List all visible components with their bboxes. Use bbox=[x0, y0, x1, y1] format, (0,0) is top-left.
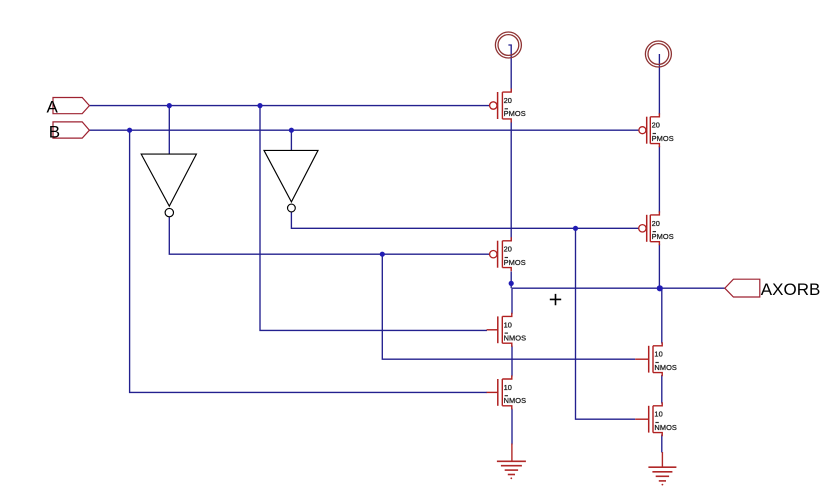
svg-text:PMOS: PMOS bbox=[504, 109, 526, 118]
cursor crosshair bbox=[550, 294, 561, 305]
wire PMOS M1 drain to PMOS M2 source bbox=[510, 122, 512, 242]
wire B to inverter U2 input bbox=[290, 130, 292, 150]
junction node BBAR bbox=[573, 226, 578, 231]
ground G2 bbox=[648, 452, 676, 486]
wire NMOS M6 source to ground G1 bbox=[511, 409, 513, 445]
junction node OUT1 bbox=[509, 281, 514, 286]
wire ABAR down to NMOS M7 gate bbox=[382, 254, 635, 359]
wire node OUT2 to NMOS M7 drain bbox=[661, 288, 663, 343]
junction node ABAR bbox=[380, 252, 385, 257]
PMOS M4 bbox=[639, 211, 674, 245]
output port AXORB bbox=[725, 279, 821, 299]
junction node on wire A at inverter U1 drop bbox=[167, 103, 172, 108]
svg-text:PMOS: PMOS bbox=[652, 232, 674, 241]
PMOS M3 bbox=[639, 113, 674, 147]
wire inverter U2 output to PMOS M4 gate bbox=[291, 212, 639, 228]
inverter U2 bbox=[264, 150, 318, 212]
input port B bbox=[49, 122, 90, 142]
NMOS M5 bbox=[487, 313, 527, 347]
wire PMOS M4 drain to node OUT2 bbox=[658, 244, 660, 288]
svg-text:10: 10 bbox=[654, 350, 662, 359]
svg-text:10: 10 bbox=[504, 383, 512, 392]
svg-text:PMOS: PMOS bbox=[504, 258, 526, 267]
NMOS M6 bbox=[487, 375, 527, 409]
PMOS M2 bbox=[490, 237, 526, 271]
ground G1 bbox=[497, 444, 526, 480]
svg-text:10: 10 bbox=[504, 320, 512, 329]
svg-text:10: 10 bbox=[654, 410, 662, 419]
junction node OUT2 bbox=[657, 285, 663, 291]
svg-text:20: 20 bbox=[652, 219, 660, 228]
junction node on wire B at NMOS M6 drop bbox=[127, 128, 132, 133]
wire VDD1 to PMOS M1 source bbox=[508, 45, 511, 92]
wire BBAR down to NMOS M8 gate bbox=[576, 228, 636, 419]
wire VDD2 to PMOS M3 source bbox=[658, 54, 660, 115]
svg-text:A: A bbox=[47, 97, 59, 116]
wire NMOS M5 source to NMOS M6 drain bbox=[511, 346, 513, 377]
svg-text:PMOS: PMOS bbox=[652, 134, 674, 143]
wire output horizontal to port AXORB bbox=[512, 287, 725, 289]
svg-text:NMOS: NMOS bbox=[504, 334, 527, 343]
junction node on wire B at inverter U2 drop bbox=[289, 128, 294, 133]
wire PMOS M3 drain to PMOS M4 source bbox=[658, 146, 660, 213]
wire node OUT1 to NMOS M5 drain bbox=[511, 288, 513, 314]
svg-text:20: 20 bbox=[504, 245, 512, 254]
inverter U1 bbox=[141, 154, 196, 217]
wire inverter U1 output to PMOS M2 gate bbox=[169, 217, 489, 254]
VDD symbol V2 bbox=[645, 41, 671, 67]
wire B horizontal bbox=[89, 129, 639, 131]
wire A horizontal bbox=[89, 105, 489, 107]
svg-text:NMOS: NMOS bbox=[654, 423, 677, 432]
svg-text:NMOS: NMOS bbox=[654, 363, 677, 372]
NMOS M8 bbox=[635, 402, 677, 436]
wire B down to NMOS M6 gate bbox=[130, 130, 487, 392]
svg-text:20: 20 bbox=[652, 121, 660, 130]
wire A to inverter U1 input bbox=[168, 106, 170, 155]
PMOS M1 bbox=[490, 89, 526, 123]
svg-text:B: B bbox=[49, 123, 60, 142]
input port A bbox=[47, 97, 90, 116]
junction node on wire A at NMOS M5 drop bbox=[257, 103, 262, 108]
wire NMOS M7 source to NMOS M8 drain bbox=[661, 375, 663, 404]
svg-text:AXORB: AXORB bbox=[761, 280, 821, 299]
wire NMOS M8 source to ground G2 bbox=[661, 435, 663, 453]
wire PMOS M2 drain to node OUT1 bbox=[510, 272, 512, 289]
NMOS M7 bbox=[635, 342, 677, 376]
svg-text:20: 20 bbox=[504, 96, 512, 105]
svg-text:NMOS: NMOS bbox=[504, 396, 527, 405]
wire A down to NMOS M5 gate bbox=[260, 106, 487, 331]
VDD symbol V1 bbox=[495, 32, 521, 58]
